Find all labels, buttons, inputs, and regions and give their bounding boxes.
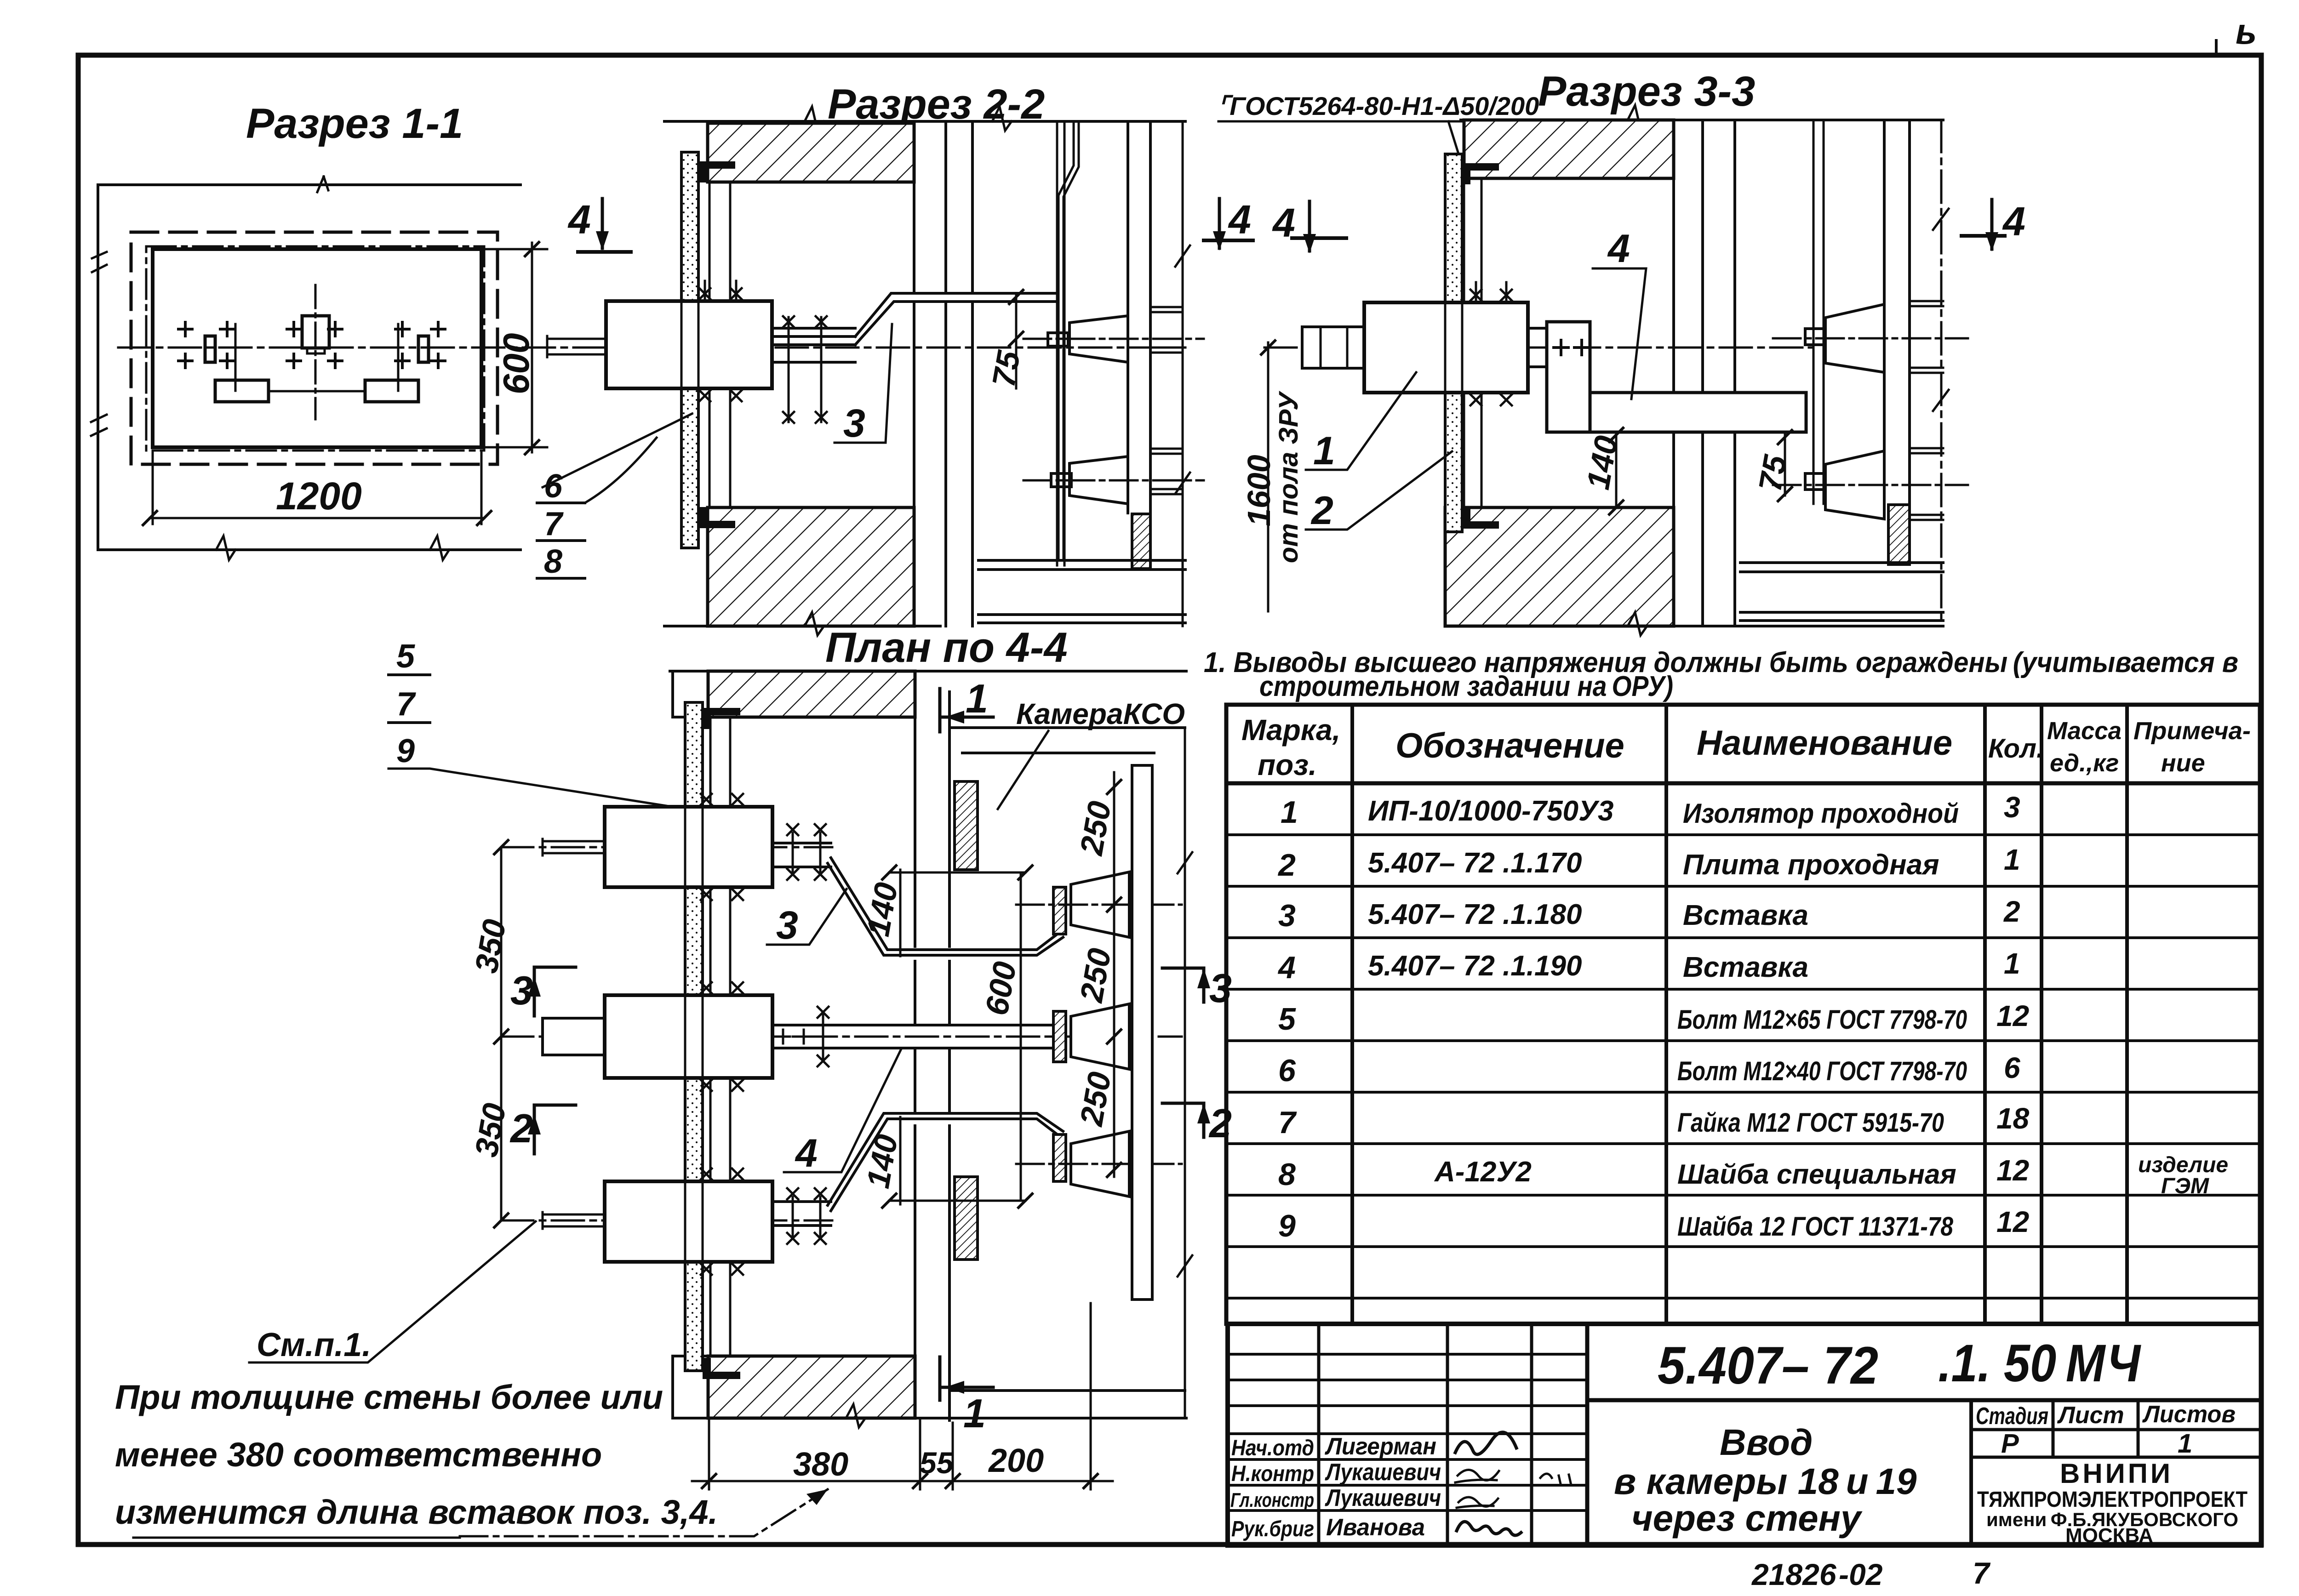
section mark 1 bottom	[938, 1357, 942, 1400]
svg-text:строительном задании на ОРУ): строительном задании на ОРУ)	[1259, 671, 1673, 702]
svg-text:Н.контр: Н.контр	[1231, 1462, 1314, 1486]
middle end flag	[1053, 1011, 1066, 1062]
plus marks bolt holes	[178, 322, 234, 368]
plate 2 outline	[153, 249, 481, 447]
svg-text:ВНИПИ: ВНИПИ	[2060, 1458, 2173, 1489]
dim 140	[1615, 432, 1618, 507]
svg-text:ИП-10/1000-750У3: ИП-10/1000-750У3	[1368, 795, 1614, 827]
top clip angle	[698, 161, 735, 182]
svg-text:5.407– 72 .1.170: 5.407– 72 .1.170	[1368, 847, 1582, 879]
svg-text:Листов: Листов	[2142, 1401, 2236, 1428]
bottom wall band	[708, 1356, 915, 1418]
chamber front line	[948, 692, 951, 1420]
opening dashed outline	[131, 232, 498, 464]
dim 75	[1015, 294, 1018, 388]
upper insulator axis	[1773, 337, 1968, 340]
plate 2 in plan	[685, 702, 703, 1371]
dim 140 upper	[899, 870, 902, 956]
svg-text:2: 2	[2003, 895, 2020, 928]
svg-text:Лист: Лист	[2057, 1402, 2124, 1429]
lower insulator axis	[1016, 1163, 1182, 1165]
svg-text:менее 380 соответственно: менее 380 соответственно	[115, 1436, 602, 1474]
wall cut boundary top	[98, 183, 520, 186]
svg-text:Изолятор проходной: Изолятор проходной	[1683, 798, 1959, 829]
svg-text:Р: Р	[2001, 1429, 2019, 1459]
svg-text:Вставка: Вставка	[1683, 952, 1808, 983]
middle bushing body	[605, 995, 772, 1078]
bottom dim line	[692, 1480, 1113, 1482]
upper insulator cone	[1071, 872, 1129, 937]
svg-text:Гайка М12 ГОСТ 5915-70: Гайка М12 ГОСТ 5915-70	[1677, 1108, 1944, 1138]
bottom clip angle	[698, 507, 735, 528]
opening frame angles	[710, 717, 730, 1356]
svg-text:9: 9	[1278, 1208, 1296, 1243]
svg-text:3: 3	[843, 401, 865, 445]
svg-text:поз.: поз.	[1258, 748, 1317, 781]
svg-text:1: 1	[1313, 429, 1335, 473]
bushing 1 body	[606, 301, 772, 388]
svg-text:12: 12	[1996, 1205, 2029, 1238]
dim 600	[1020, 872, 1022, 1201]
svg-text:План по 4-4: План по 4-4	[825, 624, 1068, 671]
rear bus stubs	[1150, 307, 1181, 353]
wall right face	[914, 671, 916, 1418]
passing plate 2	[681, 152, 698, 548]
svg-text:7: 7	[544, 506, 564, 542]
svg-text:Примеча-: Примеча-	[2133, 717, 2251, 745]
svg-text:12: 12	[1996, 999, 2029, 1032]
svg-text:200: 200	[988, 1442, 1044, 1479]
svg-text:изменится длина вставок поз: изменится длина вставок поз. 3,4.	[115, 1493, 718, 1531]
svg-text:21826 -02: 21826 -02	[1751, 1557, 1883, 1591]
signature rows	[1228, 1354, 1587, 1510]
svg-text:4: 4	[1607, 227, 1630, 271]
wall right face	[1672, 178, 1675, 507]
center vertical axis	[315, 285, 317, 419]
bottom cut boundary	[664, 625, 940, 627]
cubicle channel member	[1884, 120, 1910, 504]
right anchor bracket	[418, 336, 429, 362]
upper insulator axis	[1016, 904, 1182, 906]
bushing 1 rod	[1302, 327, 1364, 368]
svg-text:7: 7	[1973, 1556, 1991, 1590]
svg-text:Обозначение: Обозначение	[1395, 726, 1624, 765]
section mark 2 right	[1162, 1103, 1204, 1137]
svg-text:2: 2	[1277, 848, 1296, 883]
bottom pad joint	[775, 1202, 831, 1225]
insulator mounting plate	[1132, 765, 1152, 1300]
upper insulator axis	[1024, 338, 1204, 340]
row lines	[1226, 835, 2260, 1298]
axis middle phase	[501, 1036, 1182, 1038]
svg-text:5.407– 72 .1.180: 5.407– 72 .1.180	[1368, 899, 1582, 930]
wall cut boundary left	[97, 185, 99, 550]
connector stub	[1528, 328, 1547, 367]
svg-text:9: 9	[396, 733, 415, 769]
stage sheet block	[1969, 1400, 1973, 1545]
wall right face	[913, 121, 915, 626]
svg-text:Лукашевич: Лукашевич	[1325, 1485, 1441, 1511]
svg-text:ед.,кг: ед.,кг	[2050, 749, 2119, 777]
top cut boundary	[1461, 119, 1943, 121]
top cut boundary	[664, 120, 1185, 123]
svg-text:3: 3	[1278, 898, 1296, 933]
top bushing body	[605, 807, 772, 887]
left anchor bracket	[205, 336, 215, 362]
svg-text:6: 6	[2004, 1051, 2020, 1084]
dim 600 right	[481, 249, 547, 447]
svg-text:12: 12	[1996, 1154, 2029, 1187]
middle insulator cone	[1071, 1004, 1129, 1069]
svg-text:Рук.бриг: Рук.бриг	[1231, 1517, 1314, 1541]
lower insulator axis	[1024, 479, 1204, 482]
bottom clip angle	[1462, 507, 1499, 529]
bottom boundary	[673, 1417, 1186, 1419]
dim 140 lower	[899, 1117, 902, 1204]
svg-text:8: 8	[544, 543, 562, 580]
upper wall block	[708, 123, 914, 182]
section mark 4 right of 2-2	[1218, 199, 1221, 248]
flange bolts	[1470, 290, 1512, 301]
svg-text:2: 2	[1310, 489, 1333, 533]
svg-text:Марка,: Марка,	[1241, 713, 1340, 747]
door flange top	[955, 781, 978, 870]
svg-text:1: 1	[2004, 843, 2020, 876]
svg-text:.1. 50 МЧ: .1. 50 МЧ	[1938, 1334, 2141, 1393]
upper insulator bolt	[1805, 329, 1824, 345]
vertical flag item 4	[1547, 322, 1590, 432]
svg-text:Вставка: Вставка	[1683, 900, 1808, 931]
top pad joint	[775, 843, 831, 867]
upper end flag	[1053, 887, 1066, 934]
bottom bushing body	[605, 1181, 772, 1262]
svg-text:Болт М12×65 ГОСТ 7798-70: Болт М12×65 ГОСТ 7798-70	[1677, 1005, 1967, 1035]
svg-text:КамераКСО: КамераКСО	[1016, 697, 1185, 730]
opening frame angles	[709, 182, 730, 507]
svg-text:Разрез 1-1: Разрез 1-1	[246, 100, 463, 147]
svg-text:5.407– 72 .1.190: 5.407– 72 .1.190	[1368, 950, 1582, 982]
dim 350 chain left	[500, 847, 503, 1220]
section mark 1 top	[938, 689, 942, 732]
top clip angle	[703, 708, 740, 729]
bottom cut boundary	[1445, 625, 1943, 627]
middle bar item 4	[772, 1025, 1053, 1048]
bottom rails	[1740, 563, 1943, 621]
top clip angle	[1462, 163, 1499, 184]
dim 250 chain	[1113, 772, 1115, 1177]
svg-text:Шайба 12 ГОСТ 11371-78: Шайба 12 ГОСТ 11371-78	[1677, 1212, 1954, 1242]
lower z-bar item 3	[828, 1113, 1063, 1211]
section mark 4 right of 3-3	[1990, 199, 1994, 249]
top boundary	[670, 670, 1186, 673]
lower support insulator	[1825, 451, 1884, 519]
bar white-outs	[885, 948, 1038, 960]
svg-text:ГЭМ: ГЭМ	[2161, 1174, 2209, 1198]
bottom bushing rod	[543, 1212, 605, 1229]
svg-text:600: 600	[496, 333, 537, 394]
dim 1200 bottom	[153, 450, 481, 524]
channel hatched foot	[1888, 505, 1910, 564]
pad bolts	[789, 317, 821, 422]
svg-text:7: 7	[396, 686, 416, 723]
passing plate 2	[1445, 154, 1462, 532]
table column lines	[1352, 705, 2127, 1324]
svg-text:⌜ГОСТ5264-80-Н1-Δ50/200: ⌜ГОСТ5264-80-Н1-Δ50/200	[1218, 91, 1539, 120]
upper support insulator	[1825, 304, 1884, 372]
center fixing square	[302, 316, 329, 348]
svg-text:3: 3	[510, 968, 533, 1013]
title block outer	[1228, 1324, 2261, 1545]
svg-text:Иванова: Иванова	[1326, 1514, 1425, 1541]
chamber front lines	[1703, 120, 1735, 626]
svg-text:1: 1	[966, 676, 988, 721]
door flange bottom	[955, 1177, 978, 1260]
flange bolts	[699, 288, 742, 299]
bar item 4 horizontal	[1590, 393, 1806, 432]
upper z-bar item 3	[828, 858, 1063, 955]
svg-text:Лукашевич: Лукашевич	[1325, 1459, 1441, 1486]
dim 75 right	[1784, 434, 1786, 496]
svg-text:2: 2	[509, 1106, 533, 1151]
cubicle channel member	[1128, 121, 1150, 513]
svg-text:7: 7	[1278, 1105, 1297, 1140]
svg-text:5: 5	[1278, 1002, 1296, 1037]
svg-text:Стадия: Стадия	[1976, 1403, 2048, 1430]
doc number cell	[1585, 1324, 1590, 1545]
channel hatched foot	[1132, 514, 1150, 569]
svg-text:4: 4	[795, 1131, 818, 1175]
svg-text:8: 8	[1278, 1157, 1296, 1192]
svg-text:от пола ЗРУ: от пола ЗРУ	[1274, 391, 1304, 563]
svg-text:18: 18	[1996, 1102, 2030, 1135]
lower support insulator	[1069, 456, 1128, 504]
svg-text:Болт М12×40 ГОСТ 7798-70: Болт М12×40 ГОСТ 7798-70	[1677, 1056, 1967, 1086]
section mark 3 right	[1162, 968, 1204, 1002]
svg-text:4: 4	[1228, 197, 1251, 242]
bottom rails	[978, 560, 1185, 623]
bottom clip angle	[703, 1358, 740, 1379]
lower wall block	[708, 507, 914, 626]
top wall band	[708, 671, 915, 717]
svg-text:55: 55	[920, 1446, 954, 1480]
chamber interior top lines	[949, 728, 1185, 753]
svg-text:4: 4	[567, 197, 591, 242]
svg-text:Нач.отд: Нач.отд	[1231, 1436, 1314, 1460]
axis top phase	[501, 846, 832, 849]
svg-text:380: 380	[793, 1446, 848, 1483]
svg-text:через стену: через стену	[1631, 1498, 1863, 1539]
middle bushing rod	[543, 1018, 605, 1055]
rear bus stubs	[1910, 301, 1943, 373]
upper support insulator	[1069, 316, 1128, 362]
svg-text:Плита проходная: Плита проходная	[1683, 849, 1939, 881]
wall cut boundary bottom	[98, 548, 520, 551]
upper insulator bolt	[1048, 333, 1068, 346]
cut line 4-4 vertical	[1940, 120, 1943, 625]
lower insulator bolt	[1805, 473, 1824, 490]
svg-text:в камеры 18 и 19: в камеры 18 и 19	[1614, 1461, 1917, 1502]
svg-text:75: 75	[985, 348, 1027, 389]
insulator mounting sheet	[1813, 120, 1824, 504]
svg-text:5: 5	[396, 638, 415, 675]
svg-text:Разрез 3-3: Разрез 3-3	[1538, 68, 1755, 115]
svg-text:Лигерман: Лигерман	[1324, 1433, 1436, 1460]
svg-text:75: 75	[1752, 452, 1794, 494]
upper wall block	[1464, 120, 1674, 178]
bus bar item 3 z-bend	[855, 293, 1057, 345]
svg-text:А-12У2: А-12У2	[1434, 1156, 1532, 1188]
svg-text:3: 3	[2004, 791, 2020, 824]
svg-text:См.п.1.: См.п.1.	[257, 1327, 371, 1363]
chamber interior bottom lines	[949, 1389, 1185, 1392]
top bushing rod	[543, 839, 605, 855]
svg-text:Шайба специальная: Шайба специальная	[1677, 1159, 1956, 1190]
main horizontal axis	[118, 347, 1185, 349]
leader from plate to bushing	[543, 414, 692, 487]
lower end flag	[1053, 1134, 1066, 1181]
svg-text:ние: ние	[2161, 749, 2205, 777]
bushing 1 body	[1364, 302, 1528, 393]
right boundary with breaks	[1184, 728, 1186, 1418]
kinked cubicle sheet	[1058, 121, 1079, 560]
note leader arrow	[133, 1537, 460, 1539]
main axis	[1264, 347, 1812, 349]
svg-text:1: 1	[1281, 795, 1298, 830]
axis bottom phase	[501, 1220, 832, 1222]
bushing 1 rod stub	[547, 336, 606, 357]
bar white-out	[892, 294, 1057, 301]
svg-text:1: 1	[2178, 1429, 2192, 1459]
ref line bottom opening	[889, 1200, 1025, 1202]
dim 1600 floor	[1267, 342, 1270, 611]
bottom dim extensions	[709, 1303, 1091, 1489]
parts table outer	[1226, 705, 2260, 1324]
ref line top opening	[889, 872, 1025, 874]
chamber front lines	[946, 121, 972, 626]
svg-text:3: 3	[776, 903, 798, 947]
svg-text:Ввод: Ввод	[1720, 1422, 1813, 1463]
opening frame angles	[1464, 178, 1481, 507]
svg-text:5.407– 72: 5.407– 72	[1658, 1336, 1878, 1395]
svg-text:6: 6	[1278, 1053, 1296, 1088]
svg-text:Гл.констр: Гл.констр	[1230, 1489, 1314, 1511]
svg-text:При толщине стены более или: При толщине стены более или	[115, 1378, 663, 1416]
svg-text:1200: 1200	[276, 474, 362, 518]
bus pad joint	[772, 328, 855, 362]
lower insulator bolt	[1051, 473, 1071, 487]
svg-text:МОСКВА: МОСКВА	[2065, 1524, 2153, 1547]
svg-text:Кол.: Кол.	[1988, 734, 2044, 764]
lower insulator cone	[1071, 1131, 1129, 1197]
svg-text:Масса: Масса	[2047, 717, 2122, 745]
signatures scribbles	[1455, 1432, 1516, 1454]
svg-text:ь: ь	[2236, 11, 2257, 51]
svg-text:4: 4	[1277, 950, 1296, 985]
header bottom line	[1226, 781, 2260, 786]
view right boundary with breaks	[1182, 121, 1184, 626]
lower wall block	[1445, 507, 1674, 626]
axis dashed rect	[146, 246, 484, 450]
insulator mounting sheet	[1057, 121, 1064, 565]
svg-text:1: 1	[963, 1391, 986, 1436]
svg-text:Наименование: Наименование	[1697, 724, 1952, 763]
svg-text:1600: 1600	[1241, 455, 1277, 526]
signature columns	[1319, 1324, 1532, 1545]
svg-text:1: 1	[2004, 947, 2020, 980]
lower insulator axis	[1773, 484, 1968, 486]
